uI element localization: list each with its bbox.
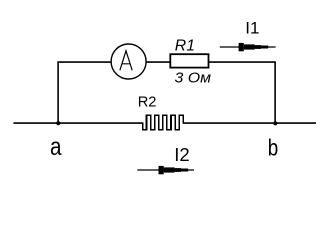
svg-text:R1: R1 bbox=[175, 38, 195, 55]
svg-text:b: b bbox=[268, 135, 279, 161]
svg-text:a: a bbox=[50, 133, 62, 161]
svg-text:I1: I1 bbox=[245, 18, 259, 37]
svg-text:R2: R2 bbox=[138, 95, 157, 111]
svg-text:3 Ом: 3 Ом bbox=[175, 71, 212, 87]
svg-text:I2: I2 bbox=[174, 144, 189, 165]
